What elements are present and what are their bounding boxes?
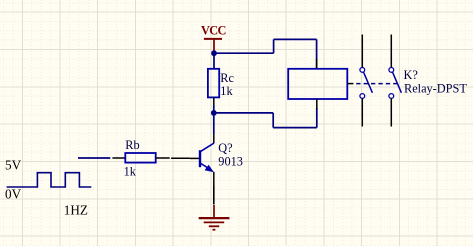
transistor Q? emitter diagonal [201, 164, 209, 169]
transistor Q? emitter arrow [205, 165, 214, 172]
svg-text:Relay-DPST: Relay-DPST [404, 82, 467, 96]
svg-text:K?: K? [404, 68, 418, 82]
svg-text:Rc: Rc [220, 71, 234, 85]
relay K? coil pin 1 (top) [316, 60, 318, 69]
relay contact 1 lower terminal circle [360, 94, 365, 99]
wire Rc to collector [213, 105, 215, 134]
relay contact 2 top pin [390, 35, 392, 68]
resistor Rc pin 1 [316, 59, 318, 69]
wire collector node to relay coil bottom [214, 108, 317, 128]
relay K? coil pin 2 (bottom) [316, 99, 318, 109]
relay contact 2 lower terminal circle [389, 94, 394, 99]
resistor Rc [208, 69, 219, 98]
svg-text:1HZ: 1HZ [64, 202, 88, 217]
junction dot at VCC node [211, 50, 217, 56]
transistor Q? base pin [190, 157, 199, 159]
svg-text:0V: 0V [5, 187, 22, 202]
transistor Q? base bar [199, 150, 201, 167]
junction dot at collector node [211, 110, 217, 116]
resistor Rb pin 2 / wire to base [156, 157, 190, 159]
resistor Rb [125, 153, 155, 163]
wire VCC to Rc top pin [213, 53, 215, 70]
svg-text:1k: 1k [220, 84, 233, 98]
transistor Q? emitter pin [213, 172, 215, 186]
svg-text:Q?: Q? [218, 141, 232, 155]
power symbol VCC [204, 39, 222, 53]
svg-text:1k: 1k [124, 164, 137, 178]
relay K? actuator dashed link [356, 83, 400, 85]
wire VCC node to relay coil top [214, 39, 317, 60]
ground [199, 205, 230, 230]
resistor Rb pin 1 [112, 157, 125, 159]
wire input to Rb [78, 157, 110, 159]
transistor Q? collector diagonal [201, 143, 214, 151]
relay contact 1 upper terminal circle [360, 68, 365, 73]
relay contact 1 bottom pin [361, 99, 363, 127]
svg-text:5V: 5V [5, 157, 22, 172]
relay K? coil [288, 69, 347, 99]
svg-text:9013: 9013 [218, 154, 243, 168]
wire emitter to ground [213, 186, 215, 205]
annotation square wave input signal [7, 173, 92, 187]
relay contact 1 top pin [361, 35, 363, 68]
relay contact 2 upper terminal circle [389, 68, 394, 73]
relay contact 2 bottom pin [390, 99, 392, 127]
transistor Q? collector pin [213, 134, 215, 143]
relay contact 2 blade [393, 72, 402, 93]
relay K? actuator stub [347, 83, 353, 85]
relay contact 1 blade [364, 72, 373, 93]
svg-text:Rb: Rb [125, 138, 139, 152]
svg-text:VCC: VCC [201, 24, 226, 38]
resistor Rc bottom pin [213, 97, 215, 105]
